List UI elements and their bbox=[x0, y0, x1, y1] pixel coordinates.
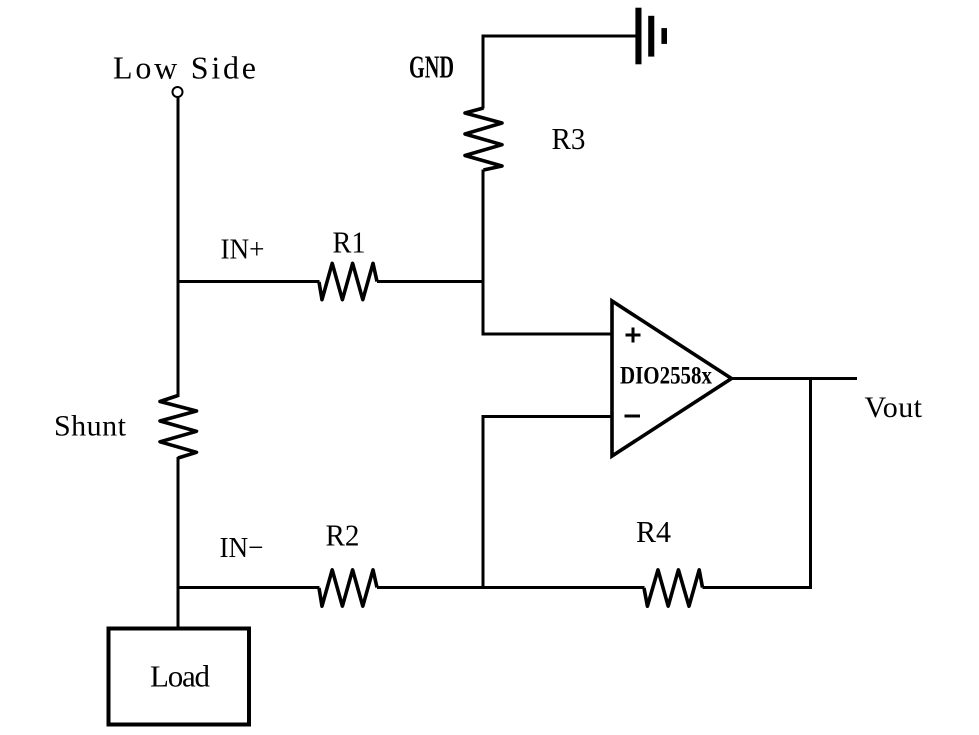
wire feedback vertical down to bottom net bbox=[482, 415, 485, 589]
resistor R2 (horizontal zigzag) bbox=[319, 570, 377, 606]
svg-text:R4: R4 bbox=[636, 514, 671, 549]
svg-text:R1: R1 bbox=[333, 225, 366, 260]
resistor R3 (vertical zigzag) bbox=[465, 108, 502, 170]
wire Shunt bottom down to Load box bbox=[177, 457, 180, 628]
svg-text:Vout: Vout bbox=[865, 391, 923, 424]
wire output feedback vertical bbox=[809, 377, 812, 589]
component Load box bbox=[109, 629, 250, 725]
wire R1 right lead to node vertical bbox=[377, 280, 485, 283]
resistor R4 (horizontal zigzag) bbox=[644, 570, 703, 606]
svg-text:Low Side: Low Side bbox=[113, 50, 256, 86]
svg-text:DIO2558x: DIO2558x bbox=[620, 363, 712, 390]
node Low Side terminal (open circle) bbox=[173, 87, 183, 97]
op-amp plus input marker bbox=[626, 328, 641, 343]
wire vertical node from GND wire down to R3 top bbox=[482, 35, 485, 109]
wire R2 right lead to R4 left lead bbox=[377, 586, 645, 589]
svg-text:Load: Load bbox=[150, 658, 211, 693]
svg-text:R2: R2 bbox=[326, 518, 360, 553]
wire R4 right lead to output vertical bbox=[703, 586, 813, 589]
svg-text:Shunt: Shunt bbox=[54, 410, 127, 443]
svg-text:R3: R3 bbox=[552, 121, 586, 156]
svg-text:IN−: IN− bbox=[220, 532, 264, 564]
resistor R1 (horizontal zigzag) bbox=[319, 263, 377, 299]
wire IN+ horizontal from main vertical to R1 left lead bbox=[177, 280, 320, 283]
ground symbol (three bars) bbox=[635, 8, 667, 65]
wire IN- horizontal from main vertical to R2 left lead bbox=[177, 586, 320, 589]
wire bottom junction into Load bbox=[177, 588, 180, 628]
wire plus input horizontal to op-amp bbox=[482, 333, 614, 336]
svg-text:GND: GND bbox=[409, 49, 454, 85]
wire vertical node from R3 bottom down to plus-input corner bbox=[482, 170, 485, 335]
wire minus input horizontal from feedback corner to op-amp bbox=[482, 415, 614, 418]
wire op-amp output horizontal bbox=[732, 377, 858, 380]
wire Low Side terminal down to Shunt top bbox=[177, 97, 180, 397]
svg-text:IN+: IN+ bbox=[221, 234, 265, 266]
resistor Shunt (vertical zigzag) bbox=[160, 396, 197, 459]
op-amp minus input marker bbox=[625, 415, 641, 418]
op-amp U1 triangle bbox=[612, 301, 732, 456]
wire GND horizontal to ground symbol bbox=[482, 35, 637, 38]
